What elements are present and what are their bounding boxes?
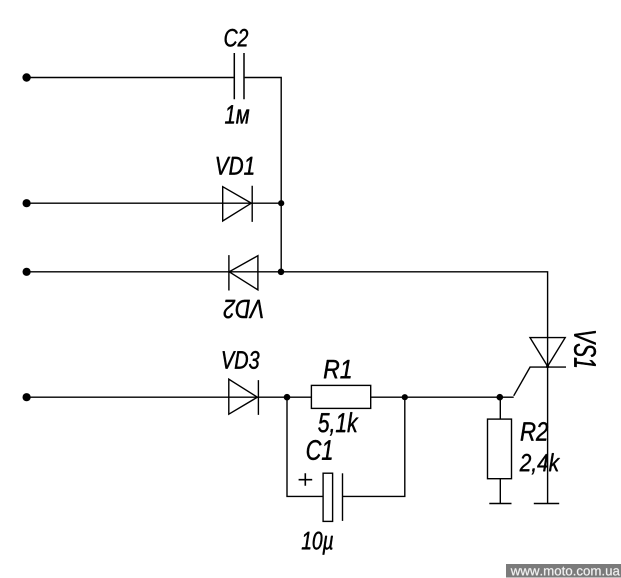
node C junction dot (gate/R2) xyxy=(497,394,504,401)
wire row1 right segment + vertical down to row3 junction xyxy=(245,78,282,272)
terminal dot row3 xyxy=(23,268,31,276)
capacitor C2 plates xyxy=(234,53,244,99)
watermark bar xyxy=(506,564,621,578)
node A junction dot xyxy=(284,394,291,401)
thyristor VS1 cathode bar xyxy=(530,366,567,368)
wire row2 xyxy=(27,202,282,204)
label VD2 (rotated 180) xyxy=(224,300,263,318)
terminal dot row4 xyxy=(23,393,31,401)
label R2 xyxy=(521,422,548,441)
diode VD1 xyxy=(223,186,253,222)
wire R2 bottom stem xyxy=(499,479,501,504)
terminal dot row1 xyxy=(22,73,30,81)
capacitor C1 right plate xyxy=(342,473,344,521)
label C2 xyxy=(225,29,248,47)
thyristor VS1 triangle xyxy=(530,338,565,367)
label VS1 (rotated 90) xyxy=(574,331,596,367)
resistor R2 body xyxy=(488,419,512,479)
wire branch down from node A to C1 left plate xyxy=(287,397,323,496)
wire row4 left of R1 xyxy=(27,396,312,398)
terminal bar under VS1 xyxy=(534,503,559,505)
terminal dot row2 xyxy=(23,199,31,207)
diode VD3 xyxy=(229,379,259,415)
value 1м xyxy=(225,105,249,123)
watermark text www.moto.com.ua xyxy=(511,567,620,576)
wire row4 right of R1 xyxy=(371,396,500,398)
capacitor C1 left plate (rect) xyxy=(323,473,333,521)
terminal bar under R2 xyxy=(489,503,511,505)
label VD3 xyxy=(223,351,260,369)
node B junction dot xyxy=(402,394,408,400)
wire gate horizontal stub xyxy=(500,396,514,398)
diode VD2 xyxy=(229,255,258,290)
value 10µ xyxy=(302,532,333,555)
wire from C1 right plate up to node B xyxy=(343,397,405,496)
value 5,1k xyxy=(318,412,358,435)
label R1 xyxy=(324,360,351,378)
junction dot row3 right xyxy=(278,269,285,276)
label VD1 xyxy=(217,157,254,175)
wire row1 left segment xyxy=(27,77,234,79)
thyristor apex junction xyxy=(546,365,549,368)
resistor R1 body xyxy=(311,385,370,408)
wire row3 + right vertical (VS1 anode/cathode line) xyxy=(27,272,548,504)
wire gate diagonal xyxy=(514,367,531,396)
plus sign of C1 polarity xyxy=(299,473,313,486)
value 2,4k xyxy=(520,453,560,474)
label C1 xyxy=(307,440,332,460)
junction dot row2 right xyxy=(278,200,284,206)
wire R2 top stem xyxy=(499,397,501,419)
